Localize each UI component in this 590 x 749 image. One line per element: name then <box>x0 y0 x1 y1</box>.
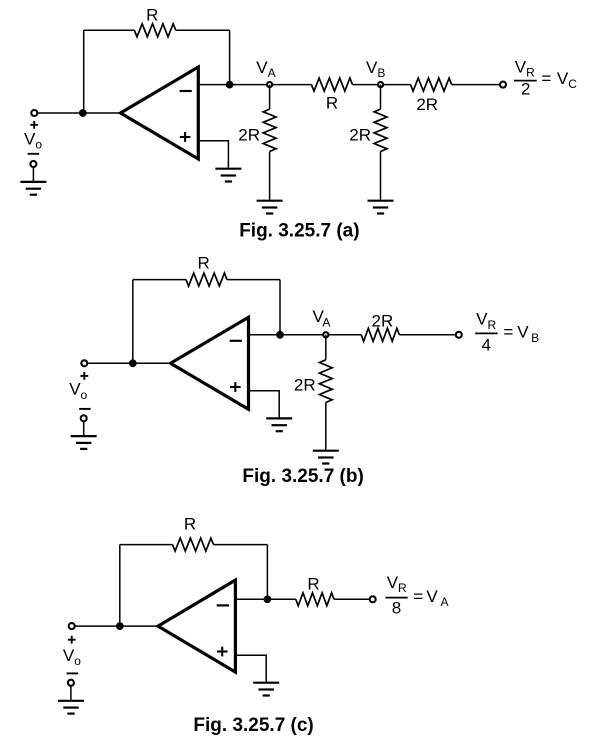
wire inverting input to node VA (a) <box>198 84 311 86</box>
label equals VA (c) <box>413 587 448 609</box>
wire VA down (a) <box>269 85 271 110</box>
wire 2R to output terminal (a) <box>452 84 503 86</box>
svg-text:2R: 2R <box>349 126 371 145</box>
wire feedback left vertical (c) <box>119 545 121 627</box>
wire feedback top-right segment (a) <box>176 29 230 31</box>
minus polarity mark Vo (b) <box>79 408 91 410</box>
svg-text:VB: VB <box>366 58 385 80</box>
wire Vo minus to ground (c) <box>70 686 72 701</box>
resistor R feedback (b) <box>186 273 227 286</box>
wire feedback top-right segment (b) <box>227 279 280 281</box>
svg-text:R: R <box>326 94 338 113</box>
label Vo (c) <box>63 646 81 668</box>
svg-text:Vo: Vo <box>63 646 81 668</box>
svg-text:2R: 2R <box>294 375 316 394</box>
label VA (a) <box>256 58 275 80</box>
svg-text:Fig. 3.25.7 (a): Fig. 3.25.7 (a) <box>239 220 359 241</box>
svg-text:VC: VC <box>557 69 577 91</box>
op-amp U3 non-inverting input mark (c) <box>217 647 228 657</box>
op-amp U1 (a) <box>121 67 199 159</box>
wire feedback right vertical (a) <box>229 30 231 84</box>
op-amp U1 non-inverting input mark (a) <box>180 132 191 142</box>
minus polarity mark Vo (a) <box>28 153 40 155</box>
wire 2R VB to ground (a) <box>380 152 382 201</box>
node junction input (b) <box>129 359 137 367</box>
ground VA shunt (a) <box>257 201 283 214</box>
wire feedback left vertical (b) <box>132 280 134 364</box>
wire feedback top-left segment (a) <box>84 29 135 31</box>
svg-text:2R: 2R <box>238 126 260 145</box>
wire R to VB (a) <box>353 84 411 86</box>
svg-text:2R: 2R <box>372 312 394 331</box>
label 2R shunt VB (a) <box>349 126 371 145</box>
node VA circle (a) <box>267 82 272 87</box>
terminal Vo minus (a) <box>30 161 36 167</box>
node junction input (a) <box>79 109 87 117</box>
op-amp U3 inverting input mark (c) <box>217 604 229 606</box>
fraction bar (c) <box>386 597 408 599</box>
label 2R shunt VA (a) <box>238 126 260 145</box>
minus polarity mark Vo (c) <box>67 672 79 674</box>
ground op-amp plus input (b) <box>266 418 292 431</box>
terminal Vo plus (b) <box>81 360 87 366</box>
svg-text:VA: VA <box>313 307 331 329</box>
resistor 2R shunt at VB (a) <box>374 109 387 151</box>
node junction output (a) <box>226 81 234 89</box>
svg-text:=: = <box>541 69 551 88</box>
wire VA down (b) <box>325 335 327 360</box>
label R feedback (a) <box>146 5 158 24</box>
wire non-inverting input (a) <box>198 141 228 169</box>
caption Fig. 3.25.7 (c) <box>193 715 313 736</box>
resistor R ladder (a) <box>311 78 352 91</box>
label R feedback (c) <box>184 515 196 534</box>
label denominator 8 (c) <box>392 599 401 618</box>
label VR numerator (a) <box>515 57 535 79</box>
wire VB down (a) <box>380 85 382 110</box>
svg-text:VR: VR <box>476 310 496 332</box>
fraction bar (a) <box>514 80 537 82</box>
resistor 2R series output (b) <box>361 328 399 341</box>
label R series (c) <box>307 574 319 593</box>
terminal Vo plus (a) <box>31 110 37 116</box>
wire input (c) <box>72 625 158 627</box>
terminal Vo minus (b) <box>81 415 87 421</box>
label Vo (a) <box>24 130 42 152</box>
svg-text:VR: VR <box>387 573 407 595</box>
wire feedback left vertical (a) <box>83 30 85 113</box>
resistor R feedback (a) <box>134 24 175 37</box>
wire inverting input to VA (b) <box>249 334 362 336</box>
label 2R series (b) <box>372 312 394 331</box>
svg-text:R: R <box>197 253 209 272</box>
op-amp U2 (b) <box>171 317 249 409</box>
node junction input (c) <box>116 622 124 630</box>
wire feedback top-left segment (c) <box>120 544 173 546</box>
svg-text:2: 2 <box>521 80 530 99</box>
ground op-amp plus input (c) <box>253 683 279 696</box>
ground Vo (a) <box>20 182 46 195</box>
terminal output VC (a) <box>500 82 506 88</box>
node junction output (c) <box>264 595 272 603</box>
wire R to output terminal (c) <box>334 598 373 600</box>
op-amp U2 non-inverting input mark (b) <box>230 382 241 392</box>
svg-text:VA: VA <box>426 587 448 609</box>
node junction output (b) <box>276 331 284 339</box>
label VR numerator (c) <box>387 573 407 595</box>
wire 2R to ground (b) <box>325 403 327 451</box>
label VR numerator (b) <box>476 310 496 332</box>
svg-text:R: R <box>307 574 319 593</box>
label R feedback (b) <box>197 253 209 272</box>
terminal Vo plus (c) <box>69 623 75 629</box>
label VA (b) <box>313 307 331 329</box>
node VA circle (b) <box>323 332 328 337</box>
label VB (a) <box>366 58 385 80</box>
resistor 2R series output (a) <box>411 78 452 91</box>
label denominator 4 (b) <box>481 336 490 355</box>
wire Vo minus to ground (b) <box>83 421 85 436</box>
svg-text:R: R <box>184 515 196 534</box>
resistor 2R shunt at VA (b) <box>319 360 332 403</box>
wire feedback right vertical (c) <box>266 545 268 600</box>
wire Vo minus to ground (a) <box>32 167 34 182</box>
svg-text:=: = <box>413 587 423 606</box>
terminal Vo minus (c) <box>68 680 74 686</box>
caption Fig. 3.25.7 (a) <box>239 220 359 241</box>
ground VB shunt (a) <box>368 201 394 214</box>
label Vo (b) <box>69 380 87 402</box>
wire non-inverting input (b) <box>249 391 280 419</box>
label equals VB (b) <box>503 323 539 345</box>
wire feedback right vertical (b) <box>279 280 281 335</box>
op-amp U2 inverting input mark (b) <box>230 340 242 342</box>
svg-text:Vo: Vo <box>24 130 42 152</box>
plus polarity mark Vo (c) <box>68 636 76 644</box>
ground op-amp plus input (a) <box>215 169 241 182</box>
wire input (b) <box>84 362 170 364</box>
wire input (a) <box>34 112 120 114</box>
wire 2R to output terminal (b) <box>399 334 459 336</box>
label 2R series (a) <box>416 95 438 114</box>
wire non-inverting input (c) <box>235 655 266 683</box>
wire feedback top-right segment (c) <box>214 544 268 546</box>
svg-text:VR: VR <box>515 57 535 79</box>
svg-text:8: 8 <box>392 599 401 618</box>
terminal output VB (b) <box>456 332 462 338</box>
label equals VC (a) <box>541 69 577 91</box>
ground Vo (c) <box>58 701 84 714</box>
svg-text:=: = <box>503 323 513 342</box>
caption Fig. 3.25.7 (b) <box>242 466 363 487</box>
terminal output VA (c) <box>370 596 376 602</box>
svg-text:VA: VA <box>256 58 275 80</box>
ground VA shunt (b) <box>313 451 339 464</box>
wire inverting input to R (c) <box>235 598 295 600</box>
plus polarity mark Vo (b) <box>80 372 88 380</box>
plus polarity mark Vo (a) <box>30 121 38 129</box>
wire feedback top-left segment (b) <box>133 279 186 281</box>
resistor 2R shunt at VA (a) <box>263 109 276 151</box>
label denominator 2 (a) <box>521 80 530 99</box>
label 2R shunt (b) <box>294 375 316 394</box>
svg-text:VB: VB <box>517 323 539 345</box>
fraction bar (b) <box>475 332 497 334</box>
svg-text:Vo: Vo <box>69 380 87 402</box>
op-amp U1 inverting input mark (a) <box>180 90 192 92</box>
svg-text:Fig. 3.25.7 (c): Fig. 3.25.7 (c) <box>193 715 313 736</box>
label R ladder (a) <box>326 94 338 113</box>
resistor R feedback (c) <box>173 538 214 551</box>
svg-text:Fig. 3.25.7 (b): Fig. 3.25.7 (b) <box>242 466 363 487</box>
svg-text:2R: 2R <box>416 95 438 114</box>
node VB circle (a) <box>378 82 383 87</box>
wire 2R to ground (a) <box>269 152 271 201</box>
svg-text:4: 4 <box>481 336 490 355</box>
op-amp U3 (c) <box>158 580 235 672</box>
resistor R series output (c) <box>296 593 334 606</box>
svg-text:R: R <box>146 5 158 24</box>
ground Vo (b) <box>71 436 97 449</box>
